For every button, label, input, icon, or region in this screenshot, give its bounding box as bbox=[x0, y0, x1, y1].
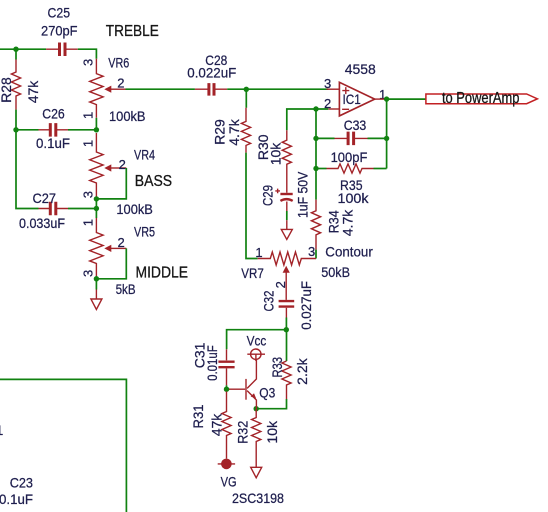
wire C28 to op-amp pin3 bbox=[227, 88, 328, 90]
capacitor C27 0.033uF bbox=[19, 190, 68, 231]
power Vcc bbox=[247, 332, 267, 361]
wire C31 to base node bbox=[226, 385, 228, 389]
svg-text:47k: 47k bbox=[25, 80, 41, 104]
svg-text:100kB: 100kB bbox=[109, 108, 146, 124]
wire feedback branch vertical bbox=[315, 109, 317, 200]
wire R28 bottom bbox=[15, 110, 17, 130]
op-amp IC1 4558 bbox=[324, 61, 386, 116]
svg-text:VR5: VR5 bbox=[134, 224, 155, 240]
resistor R32 10k bbox=[235, 409, 281, 468]
svg-text:100k: 100k bbox=[338, 190, 370, 206]
node output bbox=[384, 96, 389, 101]
svg-text:VR4: VR4 bbox=[134, 146, 155, 162]
op-amp output lead bbox=[375, 98, 385, 100]
hierarchical label to PowerAmp bbox=[426, 90, 538, 107]
wire junction row to C31 bbox=[227, 330, 287, 350]
wire R35 row left bbox=[316, 168, 327, 170]
svg-text:0.027uF: 0.027uF bbox=[298, 281, 314, 330]
svg-text:C29: C29 bbox=[260, 185, 276, 206]
capacitor C31 0.01uF bbox=[191, 342, 234, 385]
svg-text:0.1uF: 0.1uF bbox=[0, 491, 33, 507]
resistor R33 2.2k bbox=[269, 357, 310, 399]
svg-text:VR7: VR7 bbox=[241, 265, 264, 281]
wire left column down to C27 row bbox=[16, 130, 39, 209]
wire output to label bbox=[384, 98, 426, 100]
wire top row from left edge bbox=[0, 48, 46, 50]
ground below VR5 bbox=[91, 290, 102, 310]
wire feedback right vertical bbox=[386, 99, 388, 168]
svg-text:47k: 47k bbox=[209, 413, 225, 437]
svg-text:1: 1 bbox=[81, 140, 96, 147]
sheet box bottom-left bbox=[0, 379, 126, 512]
svg-text:R31: R31 bbox=[190, 404, 206, 428]
svg-text:4.7k: 4.7k bbox=[226, 118, 242, 145]
svg-text:5kB: 5kB bbox=[116, 281, 136, 297]
wire C25 to VR6 pin3 bbox=[78, 49, 97, 59]
svg-text:0.022uF: 0.022uF bbox=[187, 64, 236, 80]
svg-text:10k: 10k bbox=[267, 142, 283, 166]
svg-text:C23: C23 bbox=[10, 475, 33, 491]
capacitor C28 0.022uF bbox=[187, 52, 236, 96]
wire base bbox=[227, 388, 230, 390]
svg-text:0.033uF: 0.033uF bbox=[19, 215, 65, 231]
svg-text:2.2k: 2.2k bbox=[294, 357, 310, 384]
svg-text:R33: R33 bbox=[269, 357, 285, 378]
capacitor C29 1uF 50V polarized bbox=[260, 171, 311, 218]
resistor R34 4.7k bbox=[311, 200, 355, 250]
svg-text:1: 1 bbox=[255, 245, 262, 260]
wire VR5 pin3 to ground bbox=[95, 276, 97, 290]
capacitor C26 0.1uF bbox=[36, 106, 70, 151]
wire VR4 wiper loop to pin3 bbox=[96, 168, 126, 199]
resistor R29 4.7k bbox=[212, 108, 251, 153]
svg-text:270pF: 270pF bbox=[41, 23, 78, 39]
svg-text:IC1: IC1 bbox=[343, 91, 361, 107]
svg-text:1: 1 bbox=[81, 112, 96, 119]
capacitor C33 100pF bbox=[331, 117, 368, 165]
node C33 right bbox=[384, 136, 389, 141]
wire R29 top stub bbox=[245, 89, 247, 108]
svg-text:Contour: Contour bbox=[325, 244, 373, 260]
wire R33 top bbox=[286, 330, 288, 361]
wire R33 bottom to emitter node bbox=[256, 399, 286, 409]
node C27 right bbox=[94, 206, 99, 211]
svg-text:VG: VG bbox=[221, 473, 237, 489]
svg-text:R28: R28 bbox=[0, 77, 14, 103]
potentiometer VR6 100kB bbox=[81, 55, 146, 124]
node C26 right / VR6 pin1 bbox=[94, 127, 99, 132]
wire R35 row right bbox=[374, 168, 387, 170]
node VR5 pin3 bbox=[94, 276, 99, 281]
svg-text:2: 2 bbox=[117, 75, 124, 90]
op-amp U1 pin2 lead bbox=[328, 108, 339, 110]
svg-text:2: 2 bbox=[324, 96, 331, 111]
power VG bbox=[218, 459, 237, 490]
svg-text:Q3: Q3 bbox=[259, 384, 275, 400]
node pin2 branch bbox=[313, 106, 318, 111]
transistor Q3 bbox=[229, 360, 275, 409]
resistor R30 10k bbox=[255, 130, 292, 193]
svg-text:C33: C33 bbox=[344, 117, 367, 133]
wire op-amp pin2 to R30 bbox=[287, 109, 329, 130]
svg-text:3: 3 bbox=[308, 244, 315, 259]
svg-text:10k: 10k bbox=[264, 420, 280, 444]
resistor R35 100k bbox=[327, 164, 374, 206]
svg-text:C26: C26 bbox=[42, 106, 65, 122]
node VR4 pin3 loop bbox=[94, 196, 99, 201]
svg-text:3: 3 bbox=[81, 191, 96, 198]
svg-text:2: 2 bbox=[118, 235, 125, 250]
svg-text:0.01uF: 0.01uF bbox=[204, 345, 220, 381]
node base junction bbox=[224, 387, 229, 392]
ground below R32 bbox=[251, 467, 262, 478]
wire C29 to ground bbox=[286, 211, 288, 220]
svg-text:2: 2 bbox=[119, 157, 126, 172]
potentiometer VR4 100kB bbox=[81, 133, 156, 217]
svg-text:MIDDLE: MIDDLE bbox=[136, 264, 189, 281]
svg-text:Vcc: Vcc bbox=[247, 332, 267, 348]
wire VR4 pin3 to C27 row bbox=[95, 197, 97, 209]
op-amp U1 pin3 lead bbox=[327, 88, 340, 90]
potentiometer VR7 50kB Contour bbox=[241, 244, 373, 300]
svg-text:R32: R32 bbox=[235, 421, 251, 444]
node C32 junction bbox=[284, 327, 289, 332]
wire C26 row right bbox=[68, 129, 96, 131]
svg-text:3: 3 bbox=[324, 76, 331, 91]
svg-text:C25: C25 bbox=[48, 5, 71, 21]
wire C26 row left bbox=[16, 129, 39, 131]
svg-text:50kB: 50kB bbox=[321, 264, 350, 280]
svg-text:1uF 50V: 1uF 50V bbox=[295, 171, 311, 218]
wire C33 row left bbox=[316, 137, 335, 139]
svg-text:2SC3198: 2SC3198 bbox=[232, 490, 284, 506]
wire VR6 wiper to C28 bbox=[126, 88, 195, 90]
node C26 left bbox=[13, 127, 18, 132]
svg-text:4558: 4558 bbox=[345, 61, 376, 77]
svg-text:3: 3 bbox=[81, 59, 96, 66]
node C28/R29 junction bbox=[244, 87, 249, 92]
svg-text:C32: C32 bbox=[261, 290, 277, 311]
wire VR6 pin1 to C26 row bbox=[95, 118, 97, 130]
node R35 left bbox=[313, 166, 318, 171]
svg-text:to PowerAmp: to PowerAmp bbox=[442, 90, 520, 107]
svg-text:100kB: 100kB bbox=[116, 201, 152, 217]
svg-text:1: 1 bbox=[81, 219, 96, 226]
svg-text:BASS: BASS bbox=[135, 173, 172, 190]
node junction top-left bbox=[13, 47, 18, 52]
node C33 left bbox=[313, 136, 318, 141]
wire C32 to junction bbox=[285, 318, 287, 330]
ground below C29 bbox=[281, 220, 292, 239]
svg-text:1: 1 bbox=[0, 422, 4, 438]
svg-text:4.7k: 4.7k bbox=[339, 209, 355, 236]
wire C33 row right bbox=[368, 137, 387, 139]
capacitor C32 0.027uF bbox=[261, 281, 315, 330]
svg-text:0.1uF: 0.1uF bbox=[36, 135, 70, 151]
svg-text:VR6: VR6 bbox=[108, 55, 129, 71]
wire C27 row right bbox=[68, 208, 96, 210]
svg-text:TREBLE: TREBLE bbox=[106, 23, 159, 40]
potentiometer VR5 5kB bbox=[81, 209, 156, 297]
svg-text:100pF: 100pF bbox=[331, 149, 368, 165]
wire R28 top stub bbox=[15, 49, 17, 59]
wire R34 to VR7 pin3 bbox=[315, 250, 317, 259]
svg-text:2: 2 bbox=[273, 281, 288, 288]
capacitor C25 bbox=[41, 5, 78, 56]
svg-text:3: 3 bbox=[81, 270, 96, 277]
node emitter junction bbox=[254, 406, 259, 411]
svg-text:C27: C27 bbox=[33, 190, 57, 206]
wire VR5 wiper loop to pin3 bbox=[96, 248, 126, 278]
resistor R28 47k bbox=[0, 60, 41, 110]
resistor R31 47k bbox=[190, 392, 231, 459]
wire R29 bottom to VR7 pin1 bbox=[246, 153, 258, 259]
